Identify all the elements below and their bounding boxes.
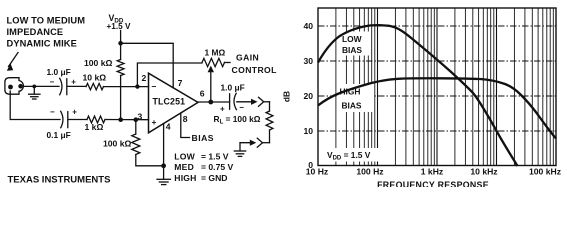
svg-text:10 kΩ: 10 kΩ xyxy=(83,73,107,83)
svg-text:10: 10 xyxy=(303,126,313,136)
svg-text:BIAS: BIAS xyxy=(192,133,215,143)
svg-text:= GND: = GND xyxy=(201,173,228,183)
svg-text:10 Hz: 10 Hz xyxy=(306,167,328,177)
wire R3 to pin3 xyxy=(105,119,149,121)
capacitor C1 1.0 uF xyxy=(60,78,67,94)
output connector top xyxy=(237,97,270,106)
bias legend text xyxy=(174,151,233,183)
svg-text:−: − xyxy=(152,82,157,92)
resistor R2 100 kOhm (VDD to divider) xyxy=(117,43,124,119)
svg-text:IMPEDANCE: IMPEDANCE xyxy=(7,27,64,37)
svg-text:TLC251: TLC251 xyxy=(153,97,186,107)
wire C1 to R1 xyxy=(67,85,86,87)
label clear boxes xyxy=(322,32,382,162)
ground G3 xyxy=(234,151,245,156)
svg-text:1 MΩ: 1 MΩ xyxy=(205,47,226,57)
load resistor RL 100 kOhm xyxy=(266,102,273,143)
svg-text:TEXAS INSTRUMENTS: TEXAS INSTRUMENTS xyxy=(8,174,111,185)
ground G2 xyxy=(157,166,170,185)
svg-text:= 1.5 V: = 1.5 V xyxy=(201,151,229,161)
svg-text:8: 8 xyxy=(183,114,188,124)
svg-text:−: − xyxy=(50,77,55,86)
mike label text xyxy=(7,16,86,49)
svg-text:6: 6 xyxy=(200,89,205,99)
svg-text:100 kΩ: 100 kΩ xyxy=(84,58,113,68)
pin8 bias stub xyxy=(181,113,190,138)
svg-text:+1.5 V: +1.5 V xyxy=(107,22,131,31)
axis tick labels xyxy=(303,21,561,177)
wire R1 to pin2 (crosses divider, joins feedback) xyxy=(104,86,149,88)
potentiometer R5 1 MOhm xyxy=(202,58,230,102)
output connector bottom xyxy=(240,138,270,151)
junction node at ground stub xyxy=(32,85,36,89)
svg-text:10 kHz: 10 kHz xyxy=(470,167,497,177)
gain control label xyxy=(232,53,277,75)
svg-text:+: + xyxy=(71,78,76,87)
pin4 wire to ground rail xyxy=(163,124,165,166)
svg-text:0.1 μF: 0.1 μF xyxy=(47,130,71,140)
svg-text:1 kΩ: 1 kΩ xyxy=(85,122,104,132)
svg-text:GAIN: GAIN xyxy=(236,53,259,63)
svg-text:3: 3 xyxy=(138,111,143,121)
ground G1 xyxy=(29,86,40,99)
svg-text:BIAS: BIAS xyxy=(342,101,362,111)
svg-text:FREQUENCY RESPONSE: FREQUENCY RESPONSE xyxy=(377,180,489,187)
node VDD rail xyxy=(118,41,123,46)
svg-text:dB: dB xyxy=(282,91,292,102)
resistor R3 1 kOhm xyxy=(87,116,105,123)
wire VDD rail to pin7 drop xyxy=(121,43,174,87)
svg-text:1.0 μF: 1.0 μF xyxy=(221,82,245,92)
svg-text:100 Hz: 100 Hz xyxy=(356,167,383,177)
svg-text:1.0 μF: 1.0 μF xyxy=(47,67,71,77)
svg-text:BIAS: BIAS xyxy=(342,45,362,55)
svg-text:+: + xyxy=(220,105,225,114)
node divider/pin3 xyxy=(118,117,123,122)
label LOW BIAS xyxy=(342,34,362,55)
wire C2 to R3 xyxy=(68,119,87,121)
curve LOW BIAS xyxy=(318,25,518,166)
svg-text:40: 40 xyxy=(303,21,313,31)
node R4 tap xyxy=(134,117,139,122)
svg-text:4: 4 xyxy=(166,122,171,132)
curve HIGH BIAS xyxy=(318,78,556,138)
capacitor C2 0.1 uF xyxy=(61,111,68,128)
capacitor C3 1.0 uF xyxy=(230,93,237,109)
microphone MIC1 xyxy=(5,78,24,95)
node ground rail xyxy=(161,163,166,168)
svg-text:RL = 100 kΩ: RL = 100 kΩ xyxy=(214,114,261,125)
resistor R1 10 kOhm xyxy=(86,83,104,89)
major decade gridlines xyxy=(378,8,497,166)
svg-text:−: − xyxy=(50,107,55,116)
node feedback/pin2 xyxy=(135,84,139,88)
svg-text:2: 2 xyxy=(142,73,147,83)
plot border xyxy=(318,8,556,166)
svg-text:LOW TO MEDIUM: LOW TO MEDIUM xyxy=(7,16,86,26)
VDD supply xyxy=(107,13,131,31)
node output xyxy=(208,100,213,105)
wire VDD down to rail node xyxy=(120,31,122,44)
svg-text:DYNAMIC MIKE: DYNAMIC MIKE xyxy=(7,39,77,49)
svg-text:HIGH: HIGH xyxy=(340,87,361,97)
arrow from label to mike xyxy=(7,53,18,71)
wire mike to C1 xyxy=(25,85,60,87)
svg-text:CONTROL: CONTROL xyxy=(232,65,277,75)
resistor R4 100 kOhm (pin3 to gnd) xyxy=(132,120,164,166)
bottom path: mike to C2 xyxy=(10,91,60,120)
op-amp U1 TLC251 xyxy=(138,73,205,133)
svg-text:LOW: LOW xyxy=(174,151,195,161)
svg-text:= 0.75 V: = 0.75 V xyxy=(201,162,234,172)
label HIGH BIAS xyxy=(340,87,362,111)
svg-text:100 kΩ: 100 kΩ xyxy=(103,139,132,149)
svg-text:+: + xyxy=(152,117,157,127)
feedback wire pin2 to pot xyxy=(137,63,202,87)
svg-text:30: 30 xyxy=(303,56,313,66)
svg-text:LOW: LOW xyxy=(342,34,362,44)
svg-text:MED: MED xyxy=(174,162,194,172)
output wire pin6 xyxy=(198,101,230,103)
dB gridlines (dash-dot) xyxy=(318,26,556,131)
svg-text:7: 7 xyxy=(178,78,183,88)
svg-text:HIGH: HIGH xyxy=(174,173,196,183)
svg-text:−: − xyxy=(239,103,244,112)
svg-text:20: 20 xyxy=(303,91,313,101)
minor gridlines xyxy=(336,8,553,166)
svg-text:1 kHz: 1 kHz xyxy=(421,167,443,177)
svg-text:100 kHz: 100 kHz xyxy=(529,167,561,177)
svg-text:+: + xyxy=(72,108,77,117)
